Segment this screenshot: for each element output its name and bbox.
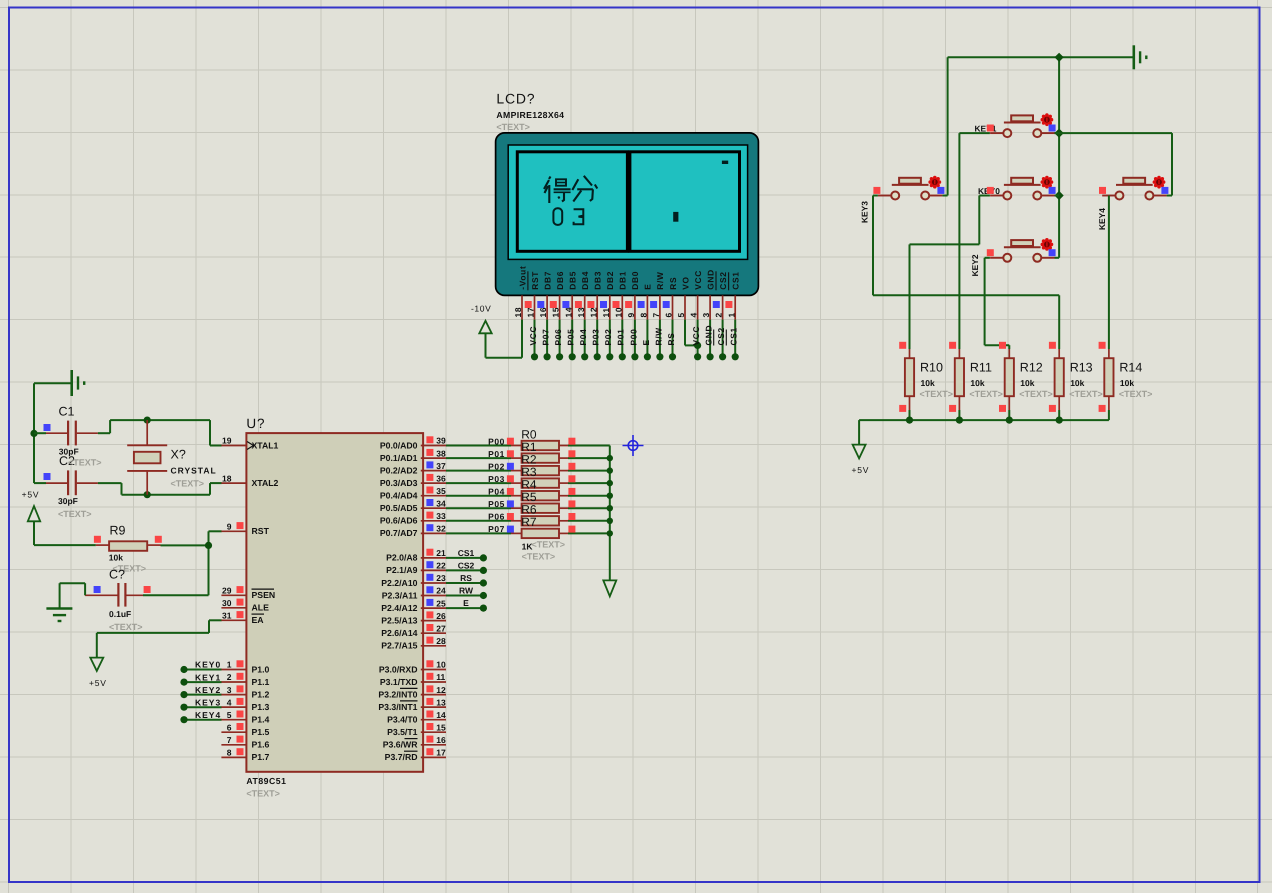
- resistor R14: [1104, 349, 1152, 420]
- svg-text:<TEXT>: <TEXT>: [109, 622, 143, 632]
- svg-text:14: 14: [563, 307, 573, 318]
- svg-text:VO: VO: [680, 276, 690, 290]
- svg-text:P0.6/AD6: P0.6/AD6: [380, 516, 418, 526]
- svg-text:DB6: DB6: [555, 271, 565, 290]
- sheet origin marker: [623, 435, 644, 456]
- net label P06: [488, 512, 505, 522]
- R0-R7 right pin-state squares: [568, 438, 575, 533]
- node CS2 (wire end): [480, 567, 487, 574]
- U1 left pin names: [252, 440, 279, 762]
- C2 pin-state square: [44, 473, 51, 480]
- svg-text:11: 11: [601, 307, 611, 317]
- svg-text:P2.1/A9: P2.1/A9: [386, 565, 418, 575]
- LCD screen cursor marks: [673, 161, 728, 222]
- svg-text:-10V: -10V: [471, 304, 491, 314]
- svg-text:10k: 10k: [1070, 378, 1084, 388]
- power terminal -10V (LCD Vout): [471, 304, 522, 358]
- svg-text:<TEXT>: <TEXT>: [58, 509, 92, 519]
- svg-text:23: 23: [436, 573, 446, 583]
- svg-text:KEY1: KEY1: [195, 672, 221, 682]
- wire +5V bottom rail: [859, 420, 1109, 445]
- R9 pin-state squares: [94, 536, 162, 543]
- U1 left pin stubs: [221, 446, 246, 758]
- svg-text:C1: C1: [59, 405, 75, 419]
- net label KEY4: [195, 710, 221, 720]
- P05 pin-state square: [507, 500, 514, 507]
- svg-text:12: 12: [588, 307, 598, 318]
- svg-text:10: 10: [436, 660, 446, 670]
- P07 pin-state square: [507, 526, 514, 533]
- node KEY0 (wire end): [180, 666, 187, 673]
- wire P01 to R1: [446, 457, 511, 459]
- wire bus R0-R7 commons: [609, 446, 611, 581]
- capacitor C1: [34, 405, 98, 446]
- LCD net labels (rotated): [528, 325, 739, 346]
- svg-text:DB3: DB3: [593, 271, 603, 290]
- C1 pin-state square: [44, 424, 51, 431]
- svg-text:AMPIRE128X64: AMPIRE128X64: [496, 110, 564, 120]
- net label KEY0: [195, 660, 221, 670]
- push button KEY1: [975, 113, 1055, 137]
- svg-text:P07: P07: [488, 524, 505, 534]
- wire C2 to XTAL2 (pin18): [98, 483, 222, 495]
- KEY1 pin-state squares: [987, 125, 1056, 132]
- svg-text:LCD?: LCD?: [496, 91, 535, 107]
- svg-text:<TEXT>: <TEXT>: [246, 789, 280, 799]
- svg-text:30pF: 30pF: [58, 496, 78, 506]
- net label KEY3: [195, 697, 221, 707]
- LCD LCD1 labels: [496, 91, 564, 133]
- svg-text:CS1: CS1: [731, 271, 741, 289]
- svg-text:KEY3: KEY3: [195, 697, 221, 707]
- wire net E: [446, 607, 483, 609]
- svg-text:PSEN: PSEN: [252, 590, 276, 600]
- svg-text:28: 28: [436, 636, 446, 646]
- push button KEY3: [860, 176, 943, 223]
- svg-text:P0.7/AD7: P0.7/AD7: [380, 528, 418, 538]
- junction nodes bottom rail: [906, 417, 1063, 424]
- svg-text:1: 1: [726, 312, 736, 317]
- svg-text:4: 4: [227, 697, 232, 707]
- net label E: [463, 598, 469, 608]
- push button KEY4: [1097, 176, 1167, 230]
- svg-text:27: 27: [436, 623, 446, 633]
- svg-text:P2.7/A15: P2.7/A15: [381, 641, 417, 651]
- R12 pin-state squares: [999, 342, 1006, 412]
- U1 right pin-state squares: [426, 436, 433, 755]
- svg-text:CS1: CS1: [729, 327, 739, 345]
- push button KEY0: [978, 176, 1055, 200]
- capacitor C2: [34, 470, 98, 495]
- svg-text:P3.5/T1: P3.5/T1: [387, 727, 418, 737]
- svg-text:9: 9: [626, 312, 636, 317]
- node KEY1 (wire end): [180, 679, 187, 686]
- ground (top-right, rotated): [1134, 45, 1147, 69]
- svg-text:30: 30: [222, 598, 232, 608]
- svg-text:RS: RS: [460, 573, 472, 583]
- svg-text:KEY2: KEY2: [970, 254, 980, 276]
- P03 pin-state square: [507, 475, 514, 482]
- svg-text:2: 2: [714, 312, 724, 317]
- svg-text:<TEXT>: <TEXT>: [496, 122, 530, 132]
- net label P04: [488, 487, 505, 497]
- resistor R11: [955, 349, 1003, 420]
- wire P04 to R4: [446, 495, 511, 497]
- P04 pin-state square: [507, 488, 514, 495]
- svg-text:+5V: +5V: [852, 465, 870, 475]
- svg-text:CS1: CS1: [458, 548, 475, 558]
- KEY0 pin-state squares: [987, 187, 1056, 194]
- C3 pin-state squares: [94, 586, 151, 593]
- svg-text:P02: P02: [603, 328, 613, 345]
- wire KEY0 to R10: [910, 196, 990, 350]
- svg-text:P0.5/AD5: P0.5/AD5: [380, 503, 418, 513]
- junction nodes on R bus: [607, 455, 613, 537]
- node CS1 (wire end): [480, 554, 487, 561]
- svg-text:<TEXT>: <TEXT>: [1119, 389, 1153, 399]
- net label P03: [488, 474, 505, 484]
- wire net KEY4 to P1.4: [184, 719, 222, 721]
- svg-text:P3.4/T0: P3.4/T0: [387, 715, 418, 725]
- svg-text:P04: P04: [578, 328, 588, 345]
- svg-text:P2.4/A12: P2.4/A12: [381, 603, 417, 613]
- svg-text:P0.3/AD3: P0.3/AD3: [380, 478, 418, 488]
- svg-text:RS: RS: [668, 277, 678, 290]
- junction node C1 left: [30, 430, 37, 437]
- junction node VO-VCC: [694, 342, 701, 349]
- resistor R13: [1055, 349, 1103, 420]
- svg-text:AT89C51: AT89C51: [246, 776, 286, 786]
- svg-text:0.1uF: 0.1uF: [109, 609, 131, 619]
- svg-text:10k: 10k: [1120, 378, 1134, 388]
- svg-text:11: 11: [436, 672, 445, 682]
- svg-text:7: 7: [651, 312, 661, 317]
- svg-text:KEY2: KEY2: [195, 685, 221, 695]
- R13 pin-state squares: [1049, 342, 1056, 412]
- svg-text:R13: R13: [1070, 361, 1093, 375]
- svg-text:P2.3/A11: P2.3/A11: [382, 590, 418, 600]
- LCD pin numbers (rotated): [513, 307, 736, 318]
- node KEY3 (wire end): [180, 704, 187, 711]
- MCU U1 AT89C51 body: [246, 416, 423, 799]
- LCD pin stubs: [522, 295, 735, 319]
- svg-text:P02: P02: [488, 461, 505, 471]
- svg-text:6: 6: [664, 312, 674, 317]
- net label KEY2: [195, 685, 221, 695]
- net label P05: [488, 499, 505, 509]
- node KEY2 (wire end): [180, 691, 187, 698]
- svg-text:DB4: DB4: [580, 271, 590, 290]
- svg-text:10k: 10k: [1020, 378, 1034, 388]
- wire +5V to R9: [34, 544, 96, 546]
- U1 XTAL1 clock mark: [247, 442, 254, 450]
- KEY3 pin-state squares: [873, 187, 944, 194]
- svg-text:RS: RS: [666, 332, 676, 345]
- wire P02 to R2: [446, 470, 511, 472]
- svg-text:P00: P00: [628, 328, 638, 345]
- svg-text:R/W: R/W: [653, 327, 663, 345]
- wire KEY2 right to rail: [1055, 257, 1060, 259]
- capacitor C3: [85, 568, 208, 633]
- svg-text:KEY3: KEY3: [860, 201, 870, 223]
- svg-text:DB2: DB2: [605, 271, 615, 290]
- ground (top-left, rotated): [72, 370, 85, 396]
- svg-text:P1.4: P1.4: [252, 715, 270, 725]
- svg-text:E: E: [463, 598, 469, 608]
- svg-text:E: E: [643, 284, 653, 290]
- svg-text:5: 5: [676, 312, 686, 317]
- svg-text:<TEXT>: <TEXT>: [1019, 389, 1053, 399]
- svg-text:CS2: CS2: [718, 271, 728, 289]
- R11 pin-state squares: [949, 342, 956, 412]
- wire P00 to R0: [446, 445, 511, 447]
- node KEY4 (wire end): [180, 716, 187, 723]
- svg-text:P3.7/RD: P3.7/RD: [385, 752, 418, 762]
- U1 right pin stubs: [421, 446, 446, 758]
- net label KEY1: [195, 672, 221, 682]
- svg-text:P2.2/A10: P2.2/A10: [381, 578, 417, 588]
- svg-text:P06: P06: [553, 328, 563, 345]
- resistor R12: [1005, 349, 1053, 420]
- resistor R10: [905, 349, 953, 420]
- svg-text:P07: P07: [541, 328, 551, 345]
- wire KEY4 to R14: [1108, 196, 1110, 350]
- svg-text:DB5: DB5: [568, 271, 578, 290]
- C1 value 30pF: [59, 447, 79, 457]
- svg-text:P1.1: P1.1: [252, 677, 270, 687]
- LCD pin-state squares: [525, 301, 733, 308]
- wire KEY1 row to KEY4 right: [1055, 133, 1173, 195]
- svg-text:E: E: [641, 339, 651, 345]
- U1 right pin numbers: [436, 436, 446, 758]
- svg-text:10k: 10k: [921, 378, 935, 388]
- U1 right pin names: [378, 440, 418, 762]
- svg-text:<TEXT>: <TEXT>: [68, 458, 102, 468]
- svg-text:KEY4: KEY4: [195, 710, 221, 720]
- resistor R9: [96, 524, 161, 563]
- power terminal +5V (keypad): [852, 445, 870, 475]
- svg-text:P05: P05: [488, 499, 505, 509]
- wire net CS2: [446, 569, 483, 571]
- svg-text:CRYSTAL: CRYSTAL: [171, 466, 217, 476]
- node RW (wire end): [480, 592, 487, 599]
- svg-text:<TEXT>: <TEXT>: [532, 539, 566, 549]
- push button KEY2: [970, 238, 1055, 276]
- svg-text:R7: R7: [521, 515, 537, 529]
- C2 value 30pF: [58, 496, 92, 519]
- P06 pin-state square: [507, 513, 514, 520]
- junction node crystal top: [144, 417, 151, 424]
- junction node RST: [205, 542, 212, 549]
- svg-text:17: 17: [436, 748, 446, 758]
- svg-text:P3.6/WR: P3.6/WR: [383, 740, 418, 750]
- svg-text:8: 8: [227, 748, 232, 758]
- svg-text:18: 18: [222, 473, 232, 483]
- svg-text:25: 25: [436, 598, 446, 608]
- svg-text:R14: R14: [1119, 361, 1142, 375]
- svg-text:38: 38: [436, 448, 446, 458]
- svg-text:R11: R11: [970, 361, 992, 375]
- svg-text:KEY4: KEY4: [1097, 208, 1107, 230]
- svg-text:P1.2: P1.2: [252, 689, 270, 699]
- svg-text:P03: P03: [488, 474, 505, 484]
- wire P05 to R5: [446, 507, 511, 509]
- svg-text:39: 39: [436, 436, 446, 446]
- svg-text:P0.1/AD1: P0.1/AD1: [380, 453, 418, 463]
- P02 pin-state square: [507, 463, 514, 470]
- svg-text:XTAL2: XTAL2: [252, 478, 279, 488]
- wire KEY0 right to rail: [1055, 195, 1060, 197]
- svg-text:P03: P03: [591, 328, 601, 345]
- svg-text:14: 14: [436, 710, 446, 720]
- svg-text:U?: U?: [246, 416, 265, 431]
- svg-text:P05: P05: [566, 328, 576, 345]
- wire P03 to R3: [446, 482, 511, 484]
- wire P06 to R6: [446, 520, 511, 522]
- svg-text:P2.6/A14: P2.6/A14: [381, 628, 417, 638]
- wire net KEY0 to P1.0: [184, 669, 222, 671]
- svg-text:6: 6: [227, 722, 232, 732]
- net label RS: [460, 573, 472, 583]
- svg-text:P3.3/INT1: P3.3/INT1: [378, 702, 417, 712]
- net label P07: [488, 524, 505, 534]
- LCD net junction dots: [531, 353, 739, 360]
- net label P00: [488, 436, 505, 446]
- svg-text:DB7: DB7: [542, 271, 552, 290]
- svg-text:31: 31: [222, 611, 232, 621]
- power terminal +5V (EA): [89, 658, 107, 688]
- R9 hidden text: [113, 564, 147, 574]
- power terminal (R0-R7 common): [603, 580, 616, 596]
- svg-text:P1.5: P1.5: [252, 727, 270, 737]
- P00 pin-state square: [507, 438, 514, 445]
- wire KEY3 right to rail: [942, 195, 947, 197]
- svg-text:26: 26: [436, 611, 446, 621]
- svg-text:+5V: +5V: [89, 678, 107, 688]
- svg-text:P1.6: P1.6: [252, 740, 270, 750]
- svg-text:10: 10: [613, 307, 623, 318]
- svg-text:13: 13: [576, 307, 586, 318]
- svg-text:P01: P01: [488, 449, 505, 459]
- wire R9 to RST / C3 node: [161, 531, 222, 595]
- svg-text:18: 18: [513, 307, 523, 318]
- wire ground to C1/C2 left rail: [34, 383, 71, 483]
- svg-text:KEY0: KEY0: [195, 660, 221, 670]
- junction node ground rail / KEY1 row: [1055, 53, 1064, 200]
- svg-text:<TEXT>: <TEXT>: [969, 389, 1003, 399]
- U1 left pin-state squares: [237, 522, 244, 755]
- svg-text:33: 33: [436, 511, 446, 521]
- svg-text:-Vout: -Vout: [517, 266, 527, 290]
- R10 pin-state squares: [899, 342, 906, 412]
- svg-text:P0.2/AD2: P0.2/AD2: [380, 465, 418, 475]
- svg-text:+5V: +5V: [22, 490, 40, 500]
- node RS (wire end): [480, 579, 487, 586]
- wire EA to +5V: [97, 620, 222, 657]
- wire KEY2 to R12: [985, 258, 1010, 349]
- ground (reset section): [46, 609, 72, 622]
- svg-text:<TEXT>: <TEXT>: [522, 551, 556, 561]
- svg-text:10k: 10k: [109, 553, 123, 563]
- net label RW: [459, 586, 474, 596]
- svg-text:17: 17: [526, 307, 536, 318]
- wire net KEY3 to P1.3: [184, 706, 222, 708]
- svg-text:<TEXT>: <TEXT>: [1069, 389, 1103, 399]
- wire net RW: [446, 595, 483, 597]
- svg-text:VCC: VCC: [691, 326, 701, 346]
- svg-text:CS2: CS2: [458, 560, 475, 570]
- node E (wire end): [480, 605, 487, 612]
- LCD LCD1 body: [496, 133, 759, 296]
- net label P02: [488, 461, 505, 471]
- svg-text:12: 12: [436, 685, 446, 695]
- svg-text:R12: R12: [1020, 361, 1043, 375]
- LCD screen text 0 3: [553, 208, 583, 225]
- R14 pin-state squares: [1099, 342, 1106, 412]
- LCD screen text 得 (pixel-drawn): [544, 177, 571, 204]
- wire net RS: [446, 582, 483, 584]
- svg-text:32: 32: [436, 524, 446, 534]
- wire KEY1 right to rail: [1055, 132, 1060, 134]
- svg-text:GND: GND: [705, 269, 715, 290]
- svg-text:EA: EA: [252, 615, 265, 625]
- svg-text:24: 24: [436, 586, 446, 596]
- LCD wires to nets: [535, 320, 736, 357]
- svg-text:RW: RW: [459, 586, 474, 596]
- svg-text:8: 8: [639, 312, 649, 317]
- wire C1 to XTAL1 (pin19): [98, 420, 222, 445]
- junction node crystal bottom: [144, 491, 151, 498]
- svg-text:P1.7: P1.7: [252, 752, 270, 762]
- svg-text:<TEXT>: <TEXT>: [920, 389, 954, 399]
- svg-text:P1.0: P1.0: [252, 664, 270, 674]
- svg-text:DB1: DB1: [618, 271, 628, 290]
- net label CS2: [458, 560, 475, 570]
- svg-text:X?: X?: [171, 448, 186, 462]
- svg-text:P3.1/TXD: P3.1/TXD: [380, 677, 418, 687]
- svg-text:19: 19: [222, 436, 232, 446]
- svg-text:16: 16: [436, 735, 446, 745]
- svg-text:3: 3: [227, 685, 232, 695]
- svg-text:P04: P04: [488, 487, 505, 497]
- wire KEY3 to R13: [873, 196, 1059, 350]
- svg-text:1: 1: [227, 660, 232, 670]
- net label P01: [488, 449, 505, 459]
- svg-text:15: 15: [551, 307, 561, 318]
- svg-text:29: 29: [222, 586, 232, 596]
- svg-text:5: 5: [227, 710, 232, 720]
- svg-text:P00: P00: [488, 436, 505, 446]
- svg-text:4: 4: [689, 312, 699, 317]
- KEY4 pin-state squares: [1099, 187, 1168, 194]
- svg-text:XTAL1: XTAL1: [252, 440, 279, 450]
- svg-text:<TEXT>: <TEXT>: [171, 479, 205, 489]
- svg-text:37: 37: [436, 461, 446, 471]
- svg-text:3: 3: [701, 312, 711, 317]
- svg-text:C?: C?: [109, 568, 125, 582]
- svg-text:13: 13: [436, 697, 446, 707]
- wire net KEY2 to P1.2: [184, 694, 222, 696]
- svg-text:P06: P06: [488, 512, 505, 522]
- svg-text:P0.0/AD0: P0.0/AD0: [380, 440, 418, 450]
- P01 pin-state square: [507, 450, 514, 457]
- svg-text:34: 34: [436, 498, 446, 508]
- svg-text:R10: R10: [920, 361, 943, 375]
- svg-text:P1.3: P1.3: [252, 702, 270, 712]
- svg-text:9: 9: [227, 522, 232, 532]
- wire net KEY1 to P1.1: [184, 681, 222, 683]
- svg-text:2: 2: [227, 672, 232, 682]
